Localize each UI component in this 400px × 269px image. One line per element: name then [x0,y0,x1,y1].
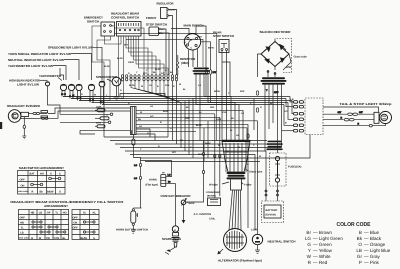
label NEUTRAL INDICATOR LIGHT [8,58,79,80]
svg-text:ARRANGEMENT: ARRANGEMENT [44,204,68,208]
svg-text:— Yellow: — Yellow [313,248,333,253]
svg-text:— Brown: — Brown [313,230,332,235]
svg-text:MAIN SWITCH: MAIN SWITCH [184,23,204,27]
battery dashed box [262,201,284,223]
svg-text:CONTROL SWITCH: CONTROL SWITCH [111,15,139,19]
svg-text:BAT: BAT [30,173,36,176]
svg-text:IG: IG [83,212,86,215]
svg-text:Br: Br [306,230,311,235]
main switch arrangement table [18,171,66,195]
long cross wires top [115,33,217,141]
junction stack [193,68,211,75]
svg-text:LG: LG [134,164,137,167]
svg-text:OFF: OFF [20,217,26,220]
block bottom tail [132,135,135,158]
vertical drops below connector row [168,81,177,144]
svg-text:P: P [359,260,362,265]
svg-text:Bk: Bk [40,191,44,194]
indicator bulb 2 (neutral) [68,84,74,98]
svg-text:Br: Br [161,32,164,35]
switch drop wires (staircase) [63,26,168,103]
svg-text:Bk/W: Bk/W [81,237,88,240]
svg-text:LG: LG [168,174,171,177]
main switch [184,34,202,50]
svg-text:Bk/W: Bk/W [47,191,54,194]
svg-text:ALTERNATOR (Flywheel type): ALTERNATOR (Flywheel type) [218,259,262,263]
svg-text:BATTERY: BATTERY [266,209,278,212]
ac ignition coil label [194,213,216,221]
svg-text:BK/W: BK/W [208,47,215,50]
svg-text:G/Y: G/Y [161,28,165,31]
connector pills right column [205,70,258,138]
horn wires [131,130,175,208]
svg-text:LG: LG [72,94,75,97]
svg-text:AC/W: AC/W [169,9,176,12]
svg-text:— Orange: — Orange [364,242,386,247]
fuse holder connector stack [266,141,282,150]
svg-text:LG/R: LG/R [251,229,257,232]
svg-text:HO: HO [40,173,44,176]
svg-text:— Red: — Red [313,260,328,265]
svg-text:(6V4AH): (6V4AH) [266,214,276,217]
svg-text:Br: Br [183,88,186,91]
svg-text:A.C. IGNITION: A.C. IGNITION [194,213,212,216]
svg-text:MAIN SWITCH ARRANGEMENT: MAIN SWITCH ARRANGEMENT [19,166,64,170]
rear stop switch box [219,40,229,53]
svg-text:G/Y: G/Y [338,111,342,114]
headlight [8,110,28,123]
svg-text:OFF: OFF [73,217,79,220]
front stop switch box [149,27,165,36]
label HIGH BEAM INDICATOR LIGHT [9,79,48,87]
svg-text:Br: Br [168,181,171,184]
svg-text:O: O [358,242,362,247]
extra mesh wires [120,62,254,162]
svg-text:NEUTRAL SWITCH: NEUTRAL SWITCH [268,240,296,244]
svg-text:HORN: HORN [149,179,157,182]
alternator harness funnel [222,140,251,190]
svg-text:REGULATOR: REGULATOR [157,2,175,6]
svg-text:— Gray: — Gray [364,254,381,259]
tail light bulb [369,111,391,127]
svg-text:LB: LB [20,232,24,235]
svg-text:STOP SWITCH: STOP SWITCH [146,23,167,27]
indicator bulb 3 (turn signal) [76,84,82,100]
svg-text:COIL: COIL [209,218,216,221]
central connector block [131,107,137,135]
svg-text:OFF: OFF [73,227,79,230]
svg-text:SPEEDOMETER LIGHT 6V1.5W: SPEEDOMETER LIGHT 6V1.5W [48,46,93,50]
alternator [224,229,247,252]
spark plug [165,226,180,255]
resistor 38ohm label [180,57,196,65]
silicon rectifier bridge [261,42,289,67]
svg-text:G: G [50,173,52,176]
svg-text:O: O [81,93,83,96]
battery terminals [265,151,279,201]
svg-text:TURN SIGNAL INDICATOR LIGHT 6V: TURN SIGNAL INDICATOR LIGHT 6V1.5W [8,52,71,56]
svg-text:W/G: W/G [210,106,215,109]
glass tube label (funnel) [245,169,263,174]
svg-text:HO: HO [63,212,67,215]
svg-text:STOP SWITCH: STOP SWITCH [213,34,234,38]
svg-text:W/Y: W/Y [143,72,148,75]
svg-text:G/Y: G/Y [359,111,363,114]
front stop switch wires [160,29,169,75]
svg-text:G: G [307,242,311,247]
rectifier drop wires [265,85,282,153]
emergency switch box [101,22,115,36]
horn button switch [131,208,142,233]
svg-text:SPEEDOMETER: SPEEDOMETER [96,75,118,79]
svg-text:CONTACT BREAKER: CONTACT BREAKER [161,194,192,198]
left harness pills [96,106,113,128]
svg-text:OF: OF [47,212,51,215]
block right-side wires [136,110,258,131]
neutral switch ground [255,245,260,254]
svg-text:Glass tube: Glass tube [249,171,263,174]
svg-text:W: W [307,254,312,259]
svg-text:BL/W: BL/W [117,57,124,60]
svg-text:SWITCH: SWITCH [87,19,99,23]
svg-text:Y/TB: Y/TB [53,237,59,240]
condenser [208,198,221,206]
alternator wires into stator [229,190,241,231]
svg-text:R: R [31,237,33,240]
svg-text:ON: ON [73,222,77,225]
svg-text:TACHOMETER: TACHOMETER [39,74,62,78]
speedometer light bulb [99,81,105,104]
neutral switch [251,229,263,245]
svg-text:KL: KL [93,212,97,215]
svg-text:LB: LB [39,212,43,215]
stack drop wires [196,75,208,141]
svg-text:LG: LG [198,84,201,87]
bulb lead terminal rings [61,93,104,103]
svg-text:Y-tube: Y-tube [244,184,252,187]
svg-text:G: G [59,191,61,194]
svg-text:HB: HB [31,212,35,215]
svg-text:TW: TW [46,237,51,240]
horn [161,173,166,187]
front stop switch label [146,16,167,27]
svg-text:B: B [359,230,362,235]
left horizontal feeds [48,95,131,134]
svg-text:Glass tube: Glass tube [294,56,308,59]
wire labels between switches [104,44,135,69]
svg-text:— Blue: — Blue [364,230,380,235]
svg-text:wire color: wire color [18,190,28,193]
headlight beam control table left [18,210,68,240]
high beam indicator bulb [45,82,49,95]
svg-text:Gr: Gr [357,254,363,259]
svg-text:G: G [120,89,122,92]
fuse dashed box [270,153,302,186]
ignition coil wire to plug [176,141,221,227]
tail connector block dashed [284,98,323,135]
svg-text:— Black: — Black [364,236,382,241]
indicator bulb 1 (tachometer light) [60,84,66,96]
svg-text:R: R [32,191,34,194]
rectifier leads [258,39,292,78]
rear stop switch wires [222,51,227,142]
svg-text:IG: IG [190,39,193,42]
more wire code specks [62,93,273,156]
svg-text:— Green: — Green [313,242,332,247]
svg-text:— White: — White [313,254,331,259]
svg-text:B/Y: B/Y [213,71,217,74]
svg-text:G: G [128,72,130,75]
svg-text:LB: LB [356,248,362,253]
svg-text:W/Y: W/Y [172,151,177,154]
rear stop switch label [213,30,234,38]
headlight connectors [26,111,48,120]
alternator ground [217,249,223,254]
svg-text:W/Y: W/Y [124,44,129,47]
svg-text:O: O [260,106,262,109]
svg-text:BAT: BAT [198,36,203,39]
svg-text:— Light Blue: — Light Blue [364,248,391,253]
svg-text:HEADLIGHT 6V35/25W: HEADLIGHT 6V35/25W [7,104,40,108]
speedometer body circle [112,77,121,100]
svg-text:G: G [165,69,167,72]
svg-text:ON: ON [21,184,25,187]
svg-text:G/Y: G/Y [161,72,165,75]
svg-text:SPARK PLUG: SPARK PLUG [162,237,182,241]
svg-text:BK/W: BK/W [214,90,221,93]
horizontal bus group upper [63,97,292,105]
svg-text:COLOR CODE: COLOR CODE [337,222,371,228]
svg-text:LG: LG [134,177,137,180]
svg-text:CONDENSER: CONDENSER [206,191,220,194]
contact breaker [181,198,195,206]
svg-text:FRONT: FRONT [146,16,156,20]
svg-text:— Light Green: — Light Green [313,236,343,241]
svg-text:O: O [147,132,149,135]
W-tube / Y-tube labels [209,182,252,187]
color code right column [356,230,390,265]
tail light wires with connectors [323,107,385,126]
horn label [146,179,159,187]
svg-text:SILICON RECTIFIER: SILICON RECTIFIER [260,30,292,34]
left edge scan mark [0,122,2,129]
indicator bulb 4 [88,84,94,102]
regulator box [161,8,176,19]
svg-text:Y: Y [308,248,311,253]
connector row (bullet connectors) [121,71,177,88]
rectifier connector stack [261,77,287,84]
svg-text:BL/W: BL/W [155,68,162,71]
svg-text:(38Ω): (38Ω) [181,61,189,65]
svg-text:Bk: Bk [357,236,363,241]
resistor coil [177,55,179,75]
regulator wires [169,10,177,76]
lower horizontal bus [104,103,298,231]
svg-text:LG/R: LG/R [96,106,102,109]
condenser label [206,191,220,198]
svg-text:A: A [174,229,176,232]
headlight beam control switch box [117,22,142,37]
tail block feed bends [282,97,310,159]
svg-text:— Pink: — Pink [364,260,380,265]
label TURN SIGNAL INDICATOR LIGHT [8,52,92,80]
svg-text:HORN BUTTON SWITCH: HORN BUTTON SWITCH [116,229,148,232]
misc wire code labels [120,68,262,166]
svg-text:NEUTRAL INDICATOR LIGHT 6V1.5W: NEUTRAL INDICATOR LIGHT 6V1.5W [8,58,64,62]
right stepping wires to funnel [196,97,258,235]
label SPEEDOMETER [96,75,118,82]
svg-text:BL: BL [62,237,66,240]
svg-text:LG: LG [150,105,153,108]
label TACHOMETER [39,74,62,81]
headlight beam control switch label [111,12,140,20]
svg-text:OFF: OFF [20,178,26,181]
svg-text:LG: LG [305,236,312,241]
svg-text:wire color: wire color [19,237,29,240]
diagonal wire fan [131,81,181,103]
svg-text:HB: HB [20,222,24,225]
svg-text:FUSE(15A): FUSE(15A) [288,166,302,169]
color code left column [305,230,343,265]
svg-text:BL/W: BL/W [129,84,136,87]
rectifier glass tube dashed outline [277,39,308,73]
svg-text:W-tube: W-tube [209,184,218,187]
svg-text:C: C [59,173,61,176]
svg-text:TACHOMETER LIGHT 6V1.5W: TACHOMETER LIGHT 6V1.5W [8,64,53,68]
svg-text:GR/W: GR/W [128,61,135,64]
label SPEEDOMETER LIGHT [48,46,102,81]
emergency switch label [84,16,103,24]
headlight ground drop [22,117,26,139]
headlight beam control table right (kill switch) [72,210,99,240]
svg-text:LIGHT 6V1.5W: LIGHT 6V1.5W [17,82,39,86]
svg-text:G: G [93,237,95,240]
svg-text:Br: Br [170,71,173,74]
label TACHOMETER LIGHT [8,64,66,80]
headlight feed wires [48,108,130,118]
svg-text:BL/W: BL/W [104,65,111,68]
svg-text:TAIL & STOP LIGHT 3/32cp: TAIL & STOP LIGHT 3/32cp [340,102,392,106]
svg-text:TL: TL [55,212,59,215]
svg-text:TL: TL [21,227,25,230]
headlight beam control table title [10,200,123,208]
main switch wires [171,26,211,103]
svg-text:(Flat type): (Flat type) [146,184,159,187]
contact breaker ground [182,205,186,224]
